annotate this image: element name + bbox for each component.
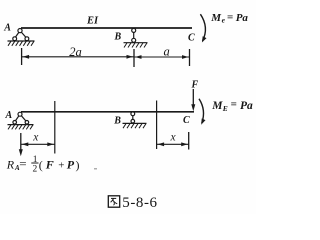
- svg-text:C: C: [188, 32, 195, 43]
- roller link support B (top): [124, 28, 148, 47]
- dimension tick at C (bottom): [188, 132, 190, 150]
- dimension line x (left): [21, 142, 55, 146]
- dimension tick at C (top): [189, 49, 191, 66]
- reaction arrow RA (downward below A): [19, 133, 23, 156]
- svg-text:5-8-6: 5-8-6: [122, 195, 157, 211]
- svg-text:x: x: [32, 131, 39, 143]
- svg-text:): ): [76, 158, 80, 172]
- dimension line a (B to C): [134, 55, 190, 59]
- svg-text:B: B: [113, 116, 121, 127]
- moment arrow ME (bottom, clockwise arc): [199, 99, 206, 125]
- section line at x from C: [156, 101, 158, 150]
- label Me = Pa (top): [210, 11, 248, 24]
- svg-text:a: a: [164, 45, 170, 59]
- svg-text:=: =: [231, 99, 237, 111]
- svg-text:2a: 2a: [69, 45, 82, 59]
- svg-text:=: =: [19, 156, 26, 171]
- svg-text:2: 2: [33, 165, 38, 175]
- svg-text:F: F: [191, 79, 199, 90]
- label ME = Pa (bottom): [211, 99, 253, 113]
- moment arrow Me (top, clockwise arc): [200, 14, 206, 42]
- svg-text:B: B: [114, 31, 122, 42]
- label RA = 1/2 (F + P): [6, 155, 80, 175]
- svg-text:=: =: [227, 11, 233, 23]
- dimension tick at A (top): [21, 48, 23, 65]
- dimension line 2a (A to B): [22, 55, 134, 59]
- svg-text:EI: EI: [86, 15, 99, 26]
- svg-text:A: A: [5, 110, 13, 121]
- pin support A (top): [8, 29, 35, 46]
- dimension tick at B (top): [133, 49, 135, 67]
- svg-text:A: A: [3, 22, 11, 33]
- scan speck: [94, 168, 97, 170]
- svg-text:R: R: [6, 157, 15, 171]
- svg-text:Pa: Pa: [236, 12, 249, 24]
- section line at x from A: [54, 101, 56, 154]
- svg-text:C: C: [183, 115, 190, 126]
- svg-text:P: P: [67, 158, 75, 172]
- pin support A (bottom): [8, 112, 34, 129]
- svg-text:M: M: [210, 12, 222, 24]
- svg-text:E: E: [222, 104, 228, 113]
- svg-text:+: +: [58, 160, 64, 172]
- svg-text:M: M: [211, 100, 223, 112]
- dimension line x (right): [157, 142, 189, 146]
- svg-text:(: (: [39, 158, 43, 172]
- roller link support B (bottom): [123, 112, 147, 128]
- beam AC (top): [21, 27, 192, 29]
- caption hanzi "tu" (figure) drawn as strokes: [108, 196, 119, 207]
- svg-text:F: F: [45, 158, 54, 172]
- force arrow F (downward at C): [191, 89, 195, 111]
- svg-text:Pa: Pa: [240, 100, 253, 112]
- svg-text:x: x: [170, 131, 177, 143]
- beam AC (bottom): [21, 111, 194, 113]
